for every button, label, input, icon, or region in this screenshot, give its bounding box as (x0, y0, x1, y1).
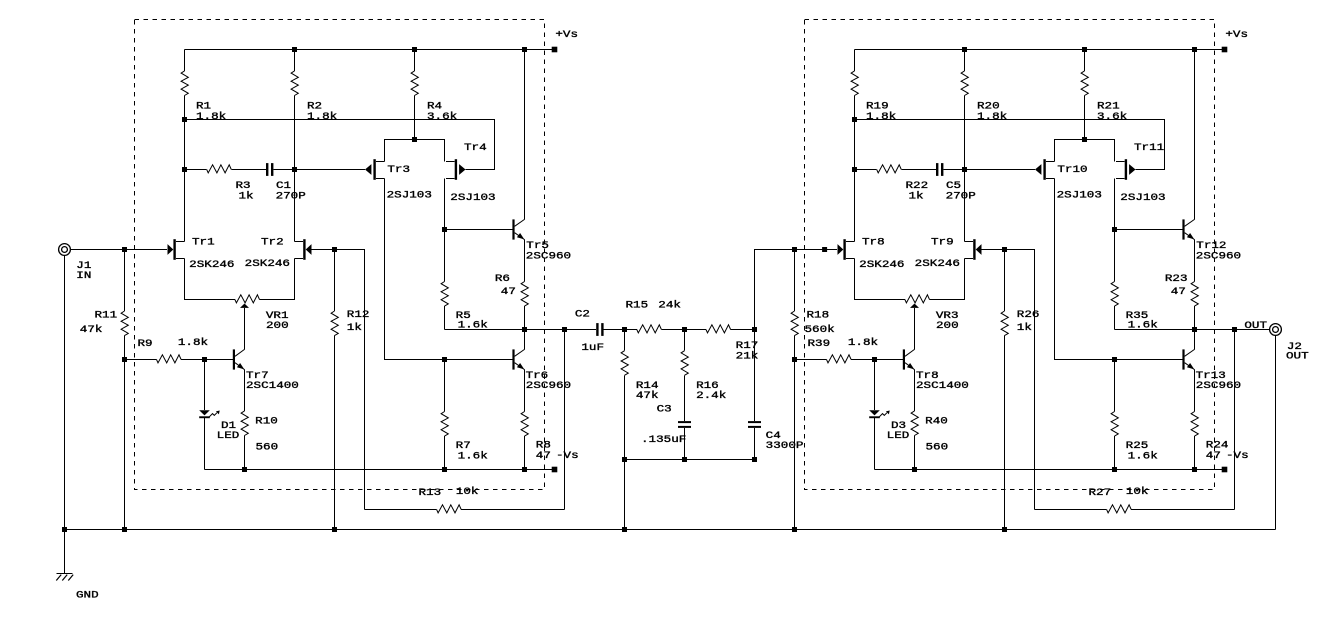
connector J1 input jack (59, 244, 71, 256)
node mid rail output tap (562, 327, 567, 332)
svg-text:3300P: 3300P (766, 441, 804, 452)
svg-text:R22: R22 (906, 181, 929, 192)
VR3 label (936, 311, 959, 332)
node +Vs supply terminal (1222, 47, 1228, 53)
transistor Tr10 2SJ103 JFET (1035, 159, 1055, 180)
C1 label (276, 181, 306, 202)
node J1 / ground rail (62, 527, 67, 532)
wire Tr13 collector to mid rail (1194, 330, 1196, 350)
svg-text:R9: R9 (138, 339, 153, 350)
node R18 / ground rail (792, 527, 797, 532)
svg-text:1.6k: 1.6k (458, 451, 488, 463)
transistor Tr7 2SC1400 NPN (233, 349, 245, 369)
node R3 line / R1 column (182, 167, 187, 172)
svg-text:2SC1400: 2SC1400 (916, 381, 969, 392)
svg-text:R7: R7 (456, 441, 471, 452)
svg-text:R1: R1 (196, 102, 211, 113)
resistor R7 (441, 360, 448, 470)
resistor R14 (621, 330, 628, 530)
resistor R25 (1111, 360, 1118, 470)
node R11 / ground rail (122, 527, 127, 532)
node R15 / R16 (682, 327, 687, 332)
svg-text:1.8k: 1.8k (196, 111, 226, 123)
R17 label (736, 341, 759, 362)
svg-text:Tr10: Tr10 (1057, 165, 1087, 176)
node mid rail output tap (1232, 327, 1237, 332)
wire Tr2 gate to feedback column (312, 250, 365, 510)
node R26 / ground rail (1002, 527, 1007, 532)
svg-text:560: 560 (926, 442, 949, 453)
node top bus / Tr5 collector (522, 47, 527, 52)
capacitor C3 (678, 421, 691, 459)
connector J2 output jack (1270, 324, 1282, 336)
capacitor C4 (748, 330, 761, 460)
R1 label (196, 102, 226, 123)
svg-text:270P: 270P (946, 192, 976, 203)
svg-text:R12: R12 (347, 310, 370, 321)
svg-text:LED: LED (217, 431, 240, 442)
svg-text:1.6k: 1.6k (1128, 451, 1158, 463)
capacitor C1 (266, 163, 295, 176)
potentiometer VR3 element (905, 295, 930, 303)
potentiometer VR1 element (235, 295, 260, 303)
node R25 / -Vs rail (1112, 467, 1117, 472)
svg-text:Tr4: Tr4 (464, 143, 487, 154)
node second stage gate line (822, 247, 827, 252)
svg-text:Tr1: Tr1 (192, 237, 215, 248)
node C2 / R14 (622, 327, 627, 332)
R5 label (456, 311, 488, 332)
svg-text:47: 47 (1171, 287, 1186, 298)
node R17 / C4 column (752, 327, 757, 332)
svg-text:IN: IN (76, 271, 91, 282)
R6 label (495, 274, 516, 298)
R23 label (1165, 274, 1188, 298)
svg-text:R40: R40 (925, 417, 948, 428)
R3 label (236, 181, 254, 202)
resistor R27 feedback (1035, 330, 1235, 513)
node input / R11 (122, 247, 127, 252)
capacitor C5 (936, 163, 965, 176)
transistor Tr12 2SC960 NPN (1182, 219, 1194, 239)
wire -Vs rail (205, 469, 555, 471)
wire Tr3 source to Tr6 base (385, 179, 513, 360)
svg-text:47: 47 (1206, 451, 1221, 462)
R7 label (456, 441, 488, 463)
resistor R24 (1191, 370, 1198, 470)
resistor R20 (961, 50, 968, 242)
svg-text:.135uF: .135uF (641, 435, 686, 446)
svg-text:2SJ103: 2SJ103 (387, 191, 432, 202)
R8 label (536, 441, 551, 463)
wire mid rail (445, 329, 565, 331)
resistor R13 feedback (365, 330, 565, 513)
wire middle bottom rail (625, 459, 755, 461)
svg-text:R39: R39 (808, 339, 831, 350)
node Tr11 source / Tr12 base line (1112, 227, 1117, 232)
R18 label (805, 311, 835, 337)
svg-text:24k: 24k (658, 300, 681, 312)
node C1 / R2 column (292, 167, 297, 172)
svg-text:Tr9: Tr9 (931, 237, 954, 248)
transistor Tr5 2SC960 NPN (512, 219, 524, 239)
C5 label (946, 181, 976, 202)
resistor R26 (1001, 250, 1008, 530)
svg-text:1.8k: 1.8k (977, 111, 1007, 123)
svg-text:2SJ103: 2SJ103 (1057, 191, 1102, 202)
wire ground rail (65, 529, 1276, 531)
svg-text:1.8k: 1.8k (848, 337, 878, 349)
wire Tr1 source to VR1 (185, 259, 235, 300)
wire Tr6 collector to mid rail (524, 330, 526, 350)
resistor R8 (521, 370, 528, 470)
svg-text:R8: R8 (536, 441, 551, 452)
svg-text:C5: C5 (946, 181, 961, 192)
node top bus / R2 (292, 47, 297, 52)
resistor R9 (125, 355, 205, 363)
wire input node to Tr1 gate (125, 249, 168, 251)
svg-text:560k: 560k (805, 324, 835, 336)
resistor R39 (795, 355, 875, 363)
node C5 / R20 column (962, 167, 967, 172)
node R14 / ground rail (622, 527, 627, 532)
wire Tr10 source to Tr13 base (1055, 179, 1183, 360)
svg-text:1.8k: 1.8k (307, 111, 337, 123)
node C3 / middle bottom rail (682, 457, 687, 462)
svg-text:10k: 10k (456, 486, 479, 498)
node R7 / -Vs rail (442, 467, 447, 472)
svg-text:2SJ103: 2SJ103 (450, 193, 495, 204)
svg-text:R3: R3 (236, 181, 251, 192)
wire VR1 to Tr2 source (260, 259, 295, 300)
node R40 / -Vs rail (912, 467, 917, 472)
transistor Tr2 2SK246 JFET (295, 239, 312, 260)
wire mid rail (1115, 329, 1235, 331)
svg-text:2SK246: 2SK246 (859, 260, 904, 271)
node R24 / -Vs rail (1192, 467, 1197, 472)
wire VR3 to Tr9 source (930, 259, 965, 300)
node Tr2 gate / R12 (332, 247, 337, 252)
svg-text:R6: R6 (495, 274, 510, 285)
node Tr13 base line / R25 (1112, 357, 1117, 362)
svg-text:10k: 10k (1126, 486, 1149, 498)
resistor R23 (1191, 240, 1198, 330)
transistor Tr11 2SJ103 JFET (1116, 159, 1136, 180)
svg-text:R2: R2 (307, 102, 322, 113)
svg-text:R13: R13 (419, 488, 442, 499)
svg-text:R19: R19 (866, 102, 889, 113)
node -Vs terminal (1222, 467, 1228, 473)
resistor R2 (291, 50, 298, 242)
svg-text:R10: R10 (255, 417, 278, 428)
svg-text:2SK246: 2SK246 (245, 259, 290, 270)
node Tr9 gate / R26 (1002, 247, 1007, 252)
svg-text:1.8k: 1.8k (178, 337, 208, 349)
node top bus / R21 (1082, 47, 1087, 52)
svg-text:3.6k: 3.6k (427, 111, 457, 123)
svg-text:1k: 1k (1017, 322, 1032, 334)
transistor Tr13 2SC960 NPN (1182, 349, 1194, 369)
dashed enclosure box (135, 20, 545, 490)
node R10 / -Vs rail (242, 467, 247, 472)
node input / R18 (792, 247, 797, 252)
R22 label (906, 181, 929, 202)
wire Tr12 base line (1115, 229, 1183, 231)
svg-text:Tr5: Tr5 (526, 241, 549, 252)
wire R39 to Tr8 base (875, 359, 903, 361)
svg-text:47k: 47k (80, 324, 103, 336)
R16 label (696, 381, 726, 402)
wire J2 ground leg (1275, 335, 1277, 529)
R14 label (636, 381, 659, 402)
svg-text:R24: R24 (1206, 441, 1229, 452)
svg-text:2SK246: 2SK246 (189, 260, 234, 271)
node mirror top / R21 (1082, 137, 1087, 142)
dashed enclosure box (805, 20, 1215, 490)
node Tr6 base line / R7 (442, 357, 447, 362)
svg-text:1uF: 1uF (581, 343, 604, 354)
svg-text:GND: GND (76, 590, 99, 601)
R24 label (1206, 441, 1229, 463)
wire current mirror top (385, 140, 445, 162)
svg-text:R27: R27 (1089, 488, 1112, 499)
svg-text:200: 200 (266, 321, 289, 332)
svg-text:C2: C2 (575, 310, 590, 321)
resistor R6 (521, 240, 528, 330)
R26 label (1017, 310, 1040, 334)
R2 label (307, 102, 337, 123)
potentiometer VR1 wiper arrow (240, 304, 249, 350)
R11 label (80, 311, 117, 337)
resistor R1 (181, 50, 188, 242)
svg-text:Tr8: Tr8 (862, 237, 885, 248)
wire current mirror top (1055, 140, 1115, 162)
node gate bus / R1 (182, 117, 187, 122)
transistor Tr8 2SK246 JFET (838, 239, 855, 260)
resistor R19 (851, 50, 858, 242)
node R18 / R39 line (792, 357, 797, 362)
transistor Tr4 2SJ103 JFET (446, 159, 466, 180)
wire Tr11 source column (1114, 179, 1116, 230)
svg-text:C1: C1 (276, 181, 291, 192)
node top bus / Tr12 collector (1192, 47, 1197, 52)
svg-text:R18: R18 (807, 311, 830, 322)
R4 label (427, 102, 457, 123)
svg-text:R25: R25 (1126, 441, 1149, 452)
transistor Tr6 2SC960 NPN (512, 349, 524, 369)
svg-text:LED: LED (887, 431, 910, 442)
wire gate bus to Tr4 (185, 120, 495, 170)
R12 label (347, 310, 370, 334)
node R12 / ground rail (332, 527, 337, 532)
svg-text:2SK246: 2SK246 (915, 259, 960, 270)
svg-text:R11: R11 (95, 311, 118, 322)
wire R9 to Tr7 base (205, 359, 233, 361)
svg-text:+Vs: +Vs (555, 30, 578, 41)
transistor Tr9 2SK246 JFET (965, 239, 982, 260)
node C4 / middle bottom rail (752, 457, 757, 462)
R19 label (866, 102, 896, 123)
potentiometer VR3 wiper arrow (910, 304, 919, 350)
node mid rail / R23 (1192, 327, 1197, 332)
resistor R40 (911, 370, 918, 470)
svg-text:-Vs: -Vs (556, 451, 579, 462)
svg-text:3.6k: 3.6k (1097, 111, 1127, 123)
wire Tr4 source column (444, 179, 446, 230)
R35 label (1126, 311, 1158, 332)
svg-text:R23: R23 (1165, 274, 1188, 285)
node R8 / -Vs rail (522, 467, 527, 472)
resistor R5 (441, 230, 448, 330)
resistor R21 (1081, 50, 1088, 140)
node mid rail / R6 (522, 327, 527, 332)
wire Tr5 base line (445, 229, 513, 231)
resistor R10 (241, 370, 248, 470)
svg-text:Tr11: Tr11 (1134, 143, 1164, 154)
resistor R15 (625, 325, 685, 333)
wire J1 to input node (70, 249, 124, 251)
svg-text:270P: 270P (276, 192, 306, 203)
diode D1 LED (199, 360, 220, 470)
svg-text:Tr3: Tr3 (387, 165, 410, 176)
svg-text:1k: 1k (347, 322, 362, 334)
svg-text:R26: R26 (1017, 310, 1040, 321)
wire gate bus to Tr11 (855, 120, 1165, 170)
node R9 / diode D1 (202, 357, 207, 362)
wire -Vs rail (875, 469, 1225, 471)
R21 label (1097, 102, 1127, 123)
resistor R17 (685, 325, 755, 333)
transistor Tr1 2SK246 JFET (168, 239, 185, 260)
svg-text:200: 200 (936, 321, 959, 332)
node gate bus / R19 (852, 117, 857, 122)
diode D3 LED (869, 360, 890, 470)
wire Tr5 collector to +Vs bus (524, 50, 526, 220)
wire Tr12 collector to +Vs bus (1194, 50, 1196, 220)
svg-text:R21: R21 (1097, 102, 1120, 113)
resistor R3 (185, 165, 267, 173)
node top bus / R20 (962, 47, 967, 52)
wire R17 node to second stage gate (755, 250, 838, 330)
R25 label (1126, 441, 1158, 463)
VR1 label (266, 311, 289, 332)
transistor Tr8 2SC1400 NPN (903, 349, 915, 369)
resistor R16 (681, 330, 688, 422)
svg-text:R20: R20 (977, 102, 1000, 113)
resistor R18 (791, 250, 798, 530)
resistor R12 (331, 250, 338, 530)
resistor R11 (121, 250, 128, 530)
wire Tr9 gate to feedback column (982, 250, 1035, 510)
wire J1 ground leg (64, 255, 66, 529)
resistor R35 (1111, 230, 1118, 330)
svg-text:47k: 47k (636, 390, 659, 402)
svg-text:OUT: OUT (1244, 321, 1267, 332)
svg-text:R4: R4 (427, 102, 442, 113)
wire +Vs top supply bus (855, 49, 1225, 51)
svg-text:560: 560 (256, 442, 279, 453)
svg-text:Tr2: Tr2 (261, 237, 284, 248)
svg-text:1k: 1k (239, 191, 254, 203)
capacitor C2 coupling (565, 323, 625, 336)
node R11 / R9 line (122, 357, 127, 362)
resistor R4 (411, 50, 418, 140)
svg-text:1.8k: 1.8k (866, 111, 896, 123)
svg-text:47: 47 (536, 451, 551, 462)
ground symbol (56, 530, 73, 581)
svg-text:+Vs: +Vs (1225, 30, 1248, 41)
svg-text:1k: 1k (909, 191, 924, 203)
svg-text:2SC960: 2SC960 (526, 251, 571, 262)
node +Vs supply terminal (552, 47, 558, 53)
R20 label (977, 102, 1007, 123)
node top bus / R4 (412, 47, 417, 52)
svg-text:C3: C3 (657, 405, 672, 416)
node R14 / middle bottom rail (622, 457, 627, 462)
node R22 line / R19 column (852, 167, 857, 172)
svg-text:47: 47 (501, 287, 516, 298)
wire Tr8 source to VR3 (855, 259, 905, 300)
svg-text:2SC960: 2SC960 (1196, 251, 1241, 262)
wire C1 node to Tr3 gate (295, 169, 366, 171)
svg-text:OUT: OUT (1286, 352, 1309, 363)
resistor R22 (855, 165, 937, 173)
svg-text:Tr12: Tr12 (1196, 241, 1226, 252)
node R39 / diode D3 (872, 357, 877, 362)
node Tr4 source / Tr5 base line (442, 227, 447, 232)
node mirror top / R4 (412, 137, 417, 142)
wire input node to Tr8 gate (795, 249, 838, 251)
svg-text:2.4k: 2.4k (696, 390, 726, 402)
wire +Vs top supply bus (185, 49, 555, 51)
transistor Tr3 2SJ103 JFET (365, 159, 385, 180)
svg-text:-Vs: -Vs (1226, 451, 1249, 462)
node -Vs terminal (552, 467, 558, 473)
wire C5 node to Tr10 gate (965, 169, 1036, 171)
svg-text:R15: R15 (626, 301, 649, 312)
svg-text:2SC1400: 2SC1400 (246, 381, 299, 392)
svg-text:2SJ103: 2SJ103 (1120, 193, 1165, 204)
wire output to J2 (1235, 329, 1270, 331)
